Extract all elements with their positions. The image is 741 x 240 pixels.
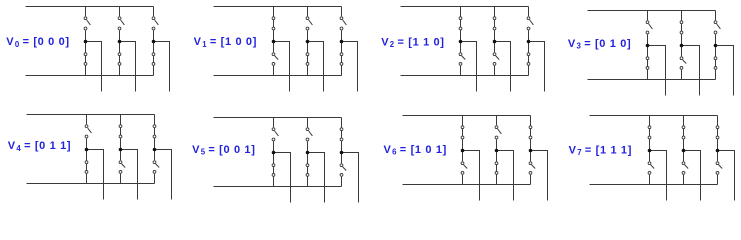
V4 phase C lower switch SC- (open) — [153, 150, 159, 184]
V4 DC+ bus wire — [27, 114, 155, 116]
V1 phase B upper switch SB+ (open) — [306, 7, 312, 42]
V7 phase B upper switch SB+ (closed) — [682, 116, 685, 151]
inverter state cell V0 — [26, 7, 170, 92]
V1 phase C output wire — [342, 42, 358, 92]
V2 phase C lower switch SC- (closed) — [527, 42, 530, 76]
V0 phase B node junction — [118, 40, 122, 44]
V7 phase A upper switch SA+ (closed) — [648, 116, 651, 151]
V3 phase C lower switch SC- (closed) — [714, 46, 717, 80]
V4 phase B upper switch SB+ (closed) — [119, 115, 122, 150]
V0 phase A output wire — [86, 42, 102, 92]
V6 phase B output wire — [497, 151, 514, 201]
V6 phase A upper switch SA+ (closed) — [461, 116, 464, 151]
V3 phase B node junction — [680, 44, 684, 48]
V4 phase A upper switch SA+ (open) — [85, 115, 91, 150]
V0 DC+ bus wire — [26, 6, 154, 8]
V4 phase A output wire — [87, 150, 104, 200]
V5 phase A output wire — [274, 153, 291, 203]
V4 phase C upper switch SC+ (closed) — [153, 115, 156, 150]
V2 phase B node junction — [493, 40, 497, 44]
V5 phase B lower switch SB- (closed) — [306, 153, 309, 187]
V0 phase A lower switch SA- (closed) — [84, 42, 87, 76]
V4 phase A lower switch SA- (closed) — [85, 150, 88, 184]
V3 phase A output wire — [648, 46, 666, 96]
V6 phase C lower switch SC- (open) — [529, 151, 535, 185]
V5 phase B upper switch SB+ (open) — [306, 118, 312, 153]
V1 phase A lower switch SA- (open) — [272, 42, 278, 76]
inverter state cell V4 — [27, 115, 172, 200]
svg-text:V3= [0 1 0]: V3= [0 1 0] — [568, 38, 631, 51]
V3 phase B lower switch SB- (open) — [680, 46, 686, 80]
svg-text:V1= [1 0 0]: V1= [1 0 0] — [194, 36, 257, 49]
V7 DC+ bus wire — [590, 115, 718, 117]
V3 phase C upper switch SC+ (open) — [714, 11, 720, 46]
V6 phase C upper switch SC+ (closed) — [529, 116, 532, 151]
V0 phase B lower switch SB- (closed) — [118, 42, 121, 76]
V6 phase B node junction — [495, 149, 499, 153]
V2 phase A lower switch SA- (open) — [459, 42, 465, 76]
V6 DC+ bus wire — [403, 115, 531, 117]
V6 phase B lower switch SB- (closed) — [495, 151, 498, 185]
inverter state cell V2 — [401, 7, 545, 92]
V7 phase A output wire — [650, 151, 667, 201]
V1 phase B output wire — [308, 42, 324, 92]
V3 DC+ bus wire — [588, 10, 716, 12]
V1 phase A upper switch SA+ (closed) — [272, 7, 275, 42]
V6 phase C output wire — [531, 151, 548, 201]
V5 phase A lower switch SA- (closed) — [272, 153, 275, 187]
V4 DC- bus wire — [27, 183, 155, 185]
V6 phase A node junction — [461, 149, 465, 153]
V2 phase B upper switch SB+ (closed) — [493, 7, 496, 42]
V0 phase B upper switch SB+ (open) — [118, 7, 124, 42]
V5 phase C upper switch SC+ (closed) — [340, 118, 343, 153]
V3 DC- bus wire — [588, 79, 716, 81]
V0 phase C lower switch SC- (closed) — [152, 42, 155, 76]
V5 phase B node junction — [306, 151, 310, 155]
V1 phase C node junction — [340, 40, 344, 44]
V3 phase C output wire — [716, 46, 734, 96]
V6 DC- bus wire — [403, 184, 531, 186]
V5 phase C output wire — [342, 153, 359, 203]
inverter state cell V1 — [214, 7, 358, 92]
V7 phase C output wire — [718, 151, 735, 201]
V3 phase B upper switch SB+ (closed) — [680, 11, 683, 46]
svg-text:V4= [0 1 1]: V4= [0 1 1] — [8, 140, 71, 153]
V7 phase B output wire — [684, 151, 701, 201]
V6 phase C node junction — [529, 149, 533, 153]
inverter state cell V3 — [588, 11, 734, 96]
V0 phase C node junction — [152, 40, 156, 44]
V2 phase A node junction — [459, 40, 463, 44]
svg-text:V7= [1 1 1]: V7= [1 1 1] — [569, 144, 632, 157]
V7 phase A lower switch SA- (open) — [648, 151, 654, 185]
V5 phase C node junction — [340, 151, 344, 155]
V3 phase A upper switch SA+ (open) — [646, 11, 652, 46]
V1 phase A node junction — [272, 40, 276, 44]
V2 phase C output wire — [529, 42, 545, 92]
V3 phase A node junction — [646, 44, 650, 48]
V4 phase B output wire — [121, 150, 138, 200]
V6 phase B upper switch SB+ (open) — [495, 116, 501, 151]
V7 phase C upper switch SC+ (closed) — [716, 116, 719, 151]
V5 DC- bus wire — [214, 186, 342, 188]
V1 phase B node junction — [306, 40, 310, 44]
V0 phase A node junction — [84, 40, 88, 44]
svg-text:V0= [0 0 0]: V0= [0 0 0] — [6, 36, 69, 49]
V7 phase A node junction — [648, 149, 652, 153]
inverter state cell V6 — [403, 116, 548, 201]
V3 phase A lower switch SA- (closed) — [646, 46, 649, 80]
V2 phase A upper switch SA+ (closed) — [459, 7, 462, 42]
V7 phase C node junction — [716, 149, 720, 153]
inverter state cell V5 — [214, 118, 359, 203]
V1 phase B lower switch SB- (closed) — [306, 42, 309, 76]
V1 phase C lower switch SC- (closed) — [340, 42, 343, 76]
V0 phase C output wire — [154, 42, 170, 92]
V4 phase B node junction — [119, 148, 123, 152]
svg-text:V2= [1 1 0]: V2= [1 1 0] — [381, 36, 444, 49]
V1 phase C upper switch SC+ (open) — [340, 7, 346, 42]
V3 phase B output wire — [682, 46, 700, 96]
V5 phase C lower switch SC- (open) — [340, 153, 346, 187]
V0 phase C upper switch SC+ (open) — [152, 7, 158, 42]
svg-text:V5= [0 0 1]: V5= [0 0 1] — [192, 144, 255, 157]
V2 DC+ bus wire — [401, 6, 529, 8]
V6 phase A lower switch SA- (open) — [461, 151, 467, 185]
V5 phase A node junction — [272, 151, 276, 155]
V6 phase A output wire — [463, 151, 480, 201]
V5 phase A upper switch SA+ (open) — [272, 118, 278, 153]
V7 phase C lower switch SC- (open) — [716, 151, 722, 185]
V5 phase B output wire — [308, 153, 325, 203]
V7 phase B node junction — [682, 149, 686, 153]
svg-text:V6= [1 0 1]: V6= [1 0 1] — [384, 144, 447, 157]
V7 DC- bus wire — [590, 184, 718, 186]
V1 DC- bus wire — [214, 75, 342, 77]
inverter state cell V7 — [590, 116, 735, 201]
V4 phase C output wire — [155, 150, 172, 200]
V2 phase B output wire — [495, 42, 511, 92]
V0 phase B output wire — [120, 42, 136, 92]
V2 phase C upper switch SC+ (open) — [527, 7, 533, 42]
V7 phase B lower switch SB- (open) — [682, 151, 688, 185]
V2 DC- bus wire — [401, 75, 529, 77]
V2 phase A output wire — [461, 42, 477, 92]
V0 phase A upper switch SA+ (open) — [84, 7, 90, 42]
V4 phase C node junction — [153, 148, 157, 152]
V2 phase B lower switch SB- (open) — [493, 42, 499, 76]
V1 phase A output wire — [274, 42, 290, 92]
V4 phase A node junction — [85, 148, 89, 152]
V3 phase C node junction — [714, 44, 718, 48]
V1 DC+ bus wire — [214, 6, 342, 8]
V4 phase B lower switch SB- (open) — [119, 150, 125, 184]
V2 phase C node junction — [527, 40, 531, 44]
V5 DC+ bus wire — [214, 117, 342, 119]
V0 DC- bus wire — [26, 75, 154, 77]
